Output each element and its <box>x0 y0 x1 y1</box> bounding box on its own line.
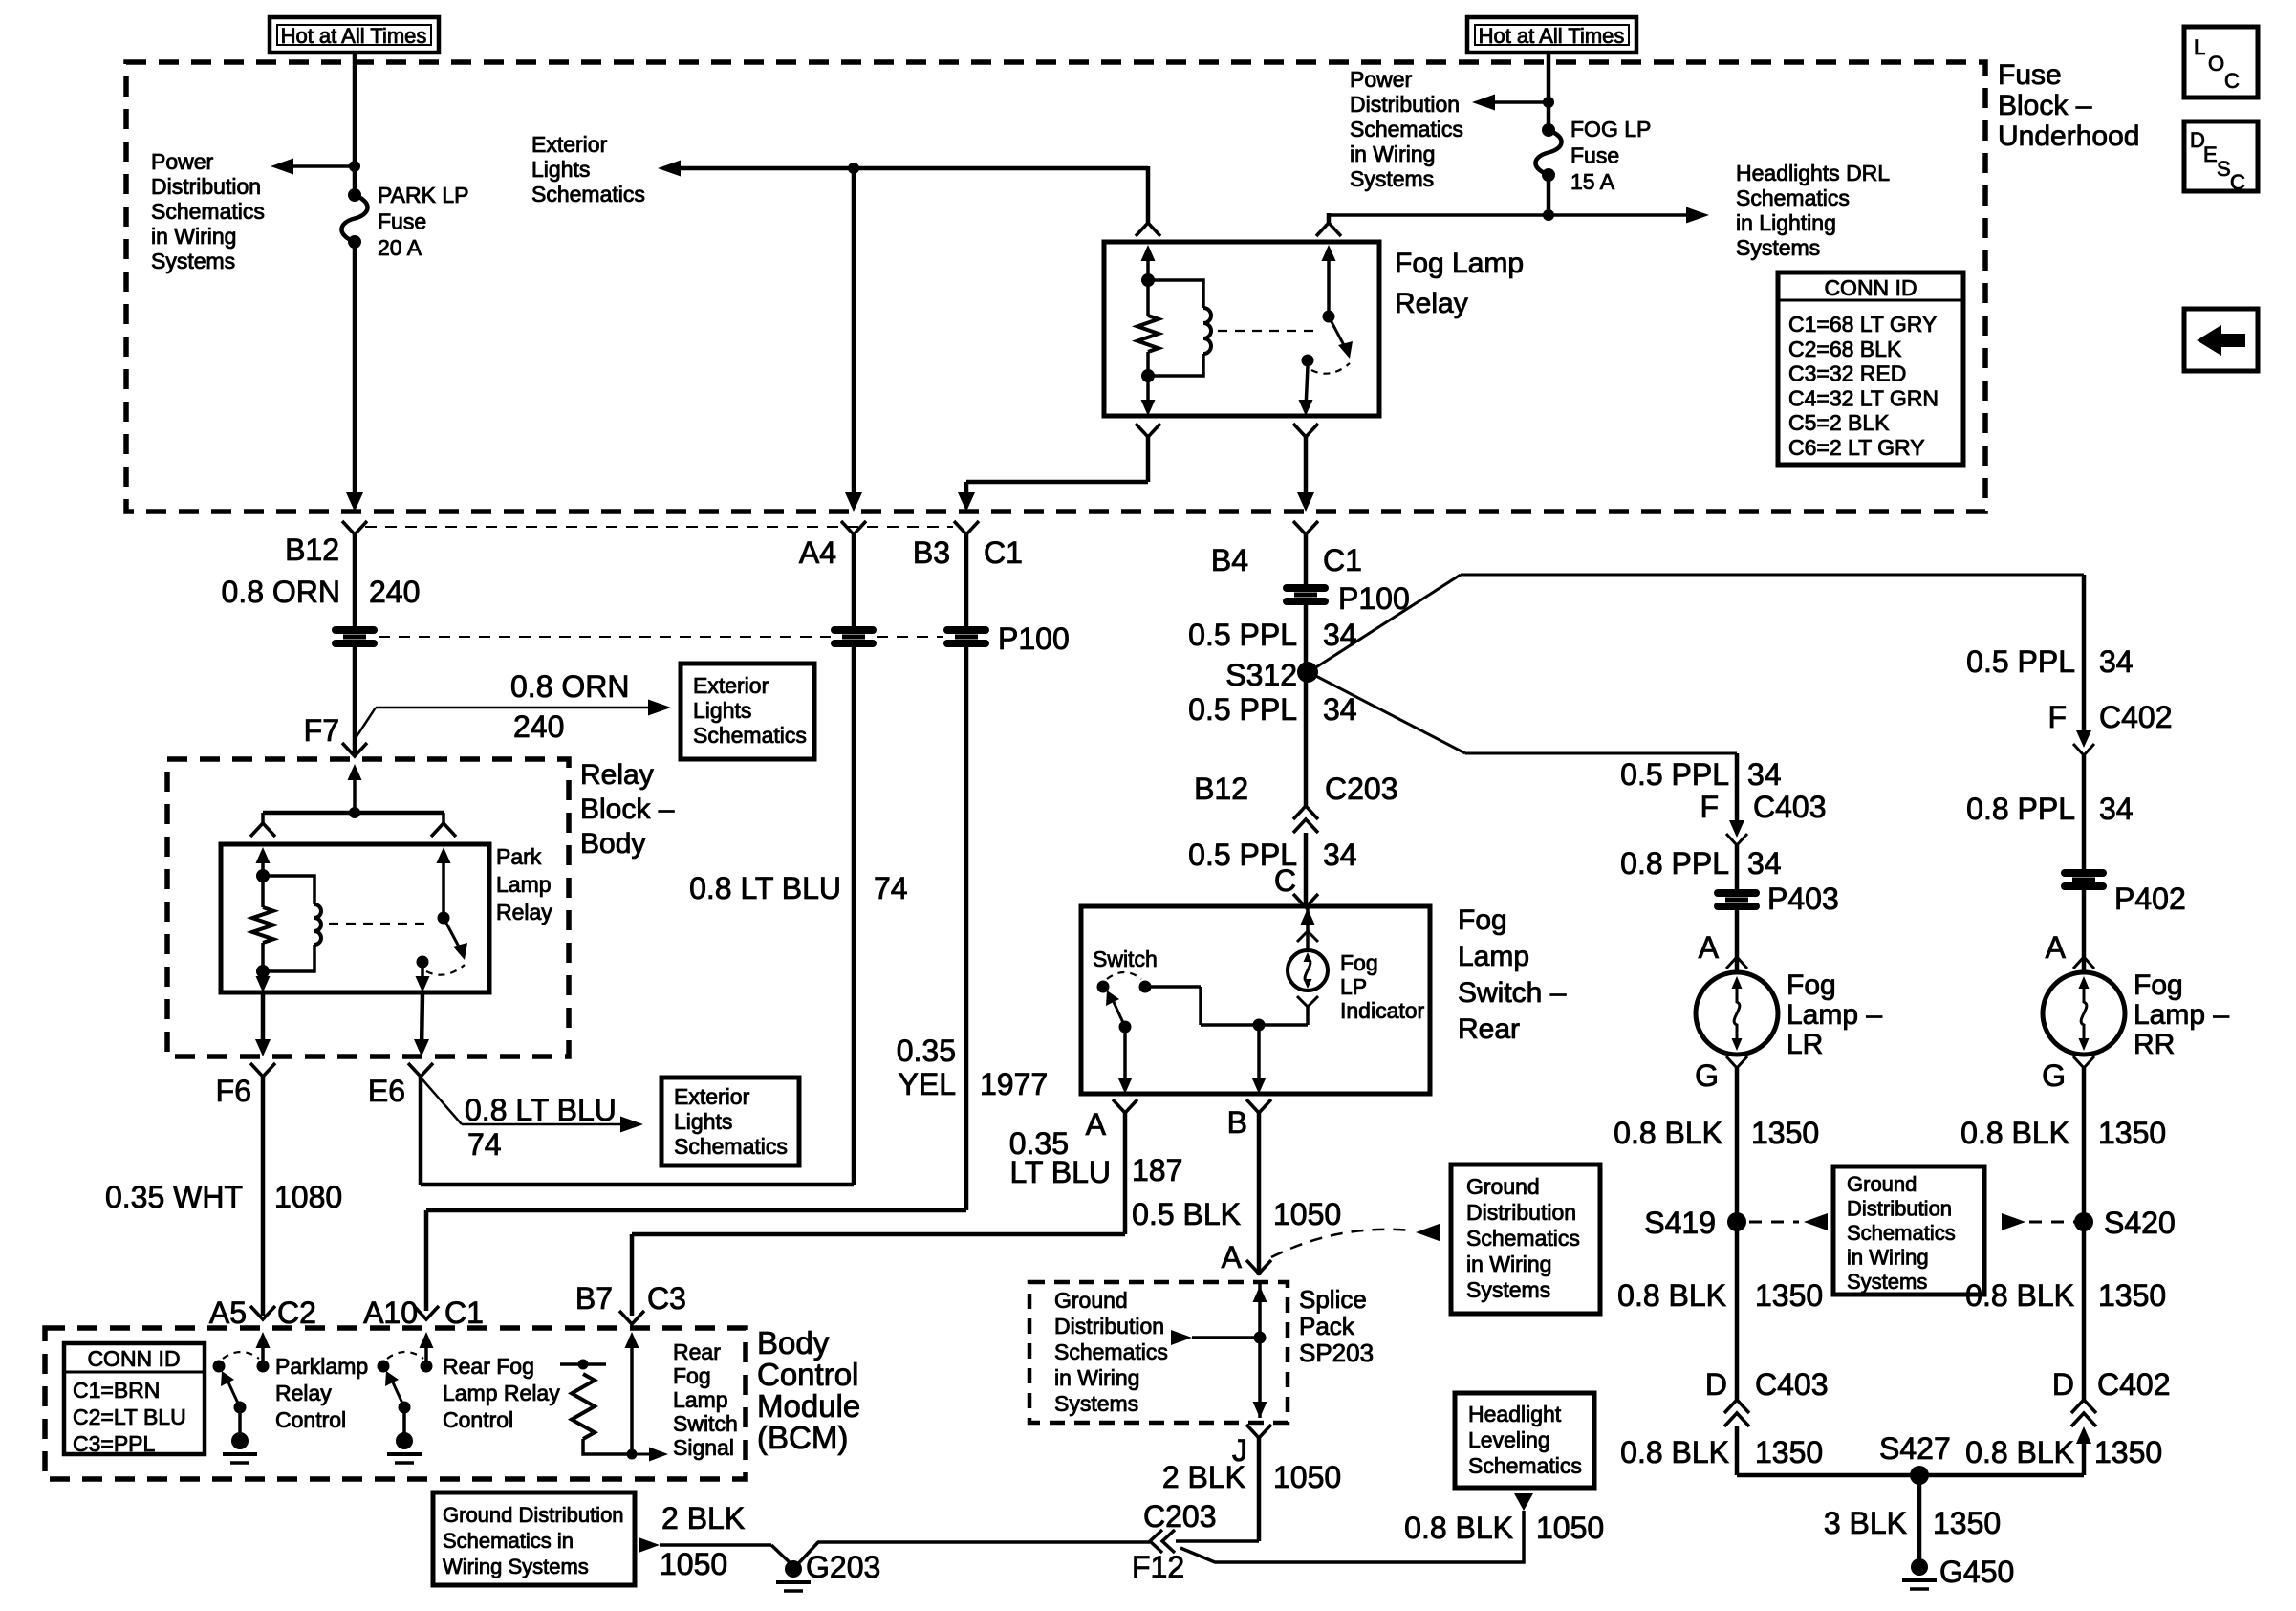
svg-text:F6: F6 <box>216 1074 251 1108</box>
pin A chevron <box>1113 1099 1137 1113</box>
wire C403-D to S427 rail <box>1735 1426 1740 1475</box>
svg-text:Hot at All Times: Hot at All Times <box>1479 24 1625 48</box>
relay block body dashed box <box>167 759 569 1056</box>
wire FOG fuse to rail <box>1547 175 1551 215</box>
svg-text:0.8 BLK: 0.8 BLK <box>1965 1278 2074 1313</box>
svg-text:C2: C2 <box>277 1295 316 1330</box>
svg-text:Module: Module <box>757 1388 860 1424</box>
fog relay left pin exit chevron <box>1136 424 1160 437</box>
C402 D double chevron <box>2071 1400 2096 1413</box>
svg-text:A: A <box>1086 1107 1107 1142</box>
wire A4 to P100 <box>852 534 856 626</box>
svg-text:0.35: 0.35 <box>897 1034 956 1068</box>
parklamp relay control pin arrow <box>261 1342 265 1366</box>
svg-text:C6=2 LT GRY: C6=2 LT GRY <box>1788 435 1925 460</box>
junction dot FOG fuse rail <box>1543 209 1554 221</box>
svg-text:Lamp –: Lamp – <box>1787 999 1882 1031</box>
Fog LP indicator circle <box>1288 950 1328 991</box>
svg-text:Ground Distribution: Ground Distribution <box>443 1503 624 1527</box>
svg-text:Ground: Ground <box>1054 1288 1128 1313</box>
connector C203 double chevron <box>1293 806 1318 819</box>
fog relay switch contact dot <box>1302 355 1314 367</box>
grommet P100 B3 <box>947 626 986 634</box>
fog relay output exit chevron <box>1293 424 1318 437</box>
park relay right pin stub <box>442 813 445 823</box>
splice pack SP203 dashed box <box>1029 1282 1288 1423</box>
wire F6 to A5 (0.35 WHT 1080) <box>261 1077 266 1316</box>
svg-text:Wiring Systems: Wiring Systems <box>443 1555 589 1578</box>
wire B3 to A10 horizontal <box>426 1208 966 1213</box>
wire P403 to lamp <box>1735 910 1740 972</box>
park relay switch arm <box>444 918 460 948</box>
pin B chevron <box>1246 1099 1271 1113</box>
svg-text:0.5 PPL: 0.5 PPL <box>1188 618 1297 652</box>
svg-text:Parklamp: Parklamp <box>275 1354 368 1379</box>
splice S419 <box>1727 1212 1746 1231</box>
splice in chevron <box>1246 1260 1271 1274</box>
park relay left pin stub <box>261 813 265 823</box>
svg-text:in Wiring: in Wiring <box>1847 1246 1929 1270</box>
fog relay switch dashed arc <box>1311 363 1350 374</box>
svg-text:B3: B3 <box>913 535 950 570</box>
S312 lower diagonal <box>1309 672 1465 753</box>
DESC button <box>2184 121 2258 191</box>
svg-text:A: A <box>2046 930 2067 965</box>
wire P100 to S312 <box>1304 605 1309 672</box>
svg-text:Fog: Fog <box>1458 904 1507 936</box>
wire P402 to lamp <box>2082 890 2087 972</box>
grommet P100 B12 <box>336 626 374 634</box>
wire B4 to P100 grommet <box>1304 534 1309 584</box>
svg-text:Rear: Rear <box>673 1339 721 1364</box>
switch pin C arrow <box>1306 906 1310 950</box>
headlight leveling schematics box <box>1455 1393 1594 1488</box>
splice pack wire <box>1258 1282 1262 1418</box>
svg-text:Lamp –: Lamp – <box>2134 999 2229 1031</box>
LOC button <box>2184 27 2258 98</box>
RR lamp chevron out <box>2073 1056 2094 1068</box>
svg-text:1050: 1050 <box>1536 1511 1604 1545</box>
svg-text:Lights: Lights <box>693 698 751 723</box>
fog lamp relay box <box>1104 242 1379 416</box>
park relay coil dots <box>256 869 270 882</box>
svg-text:C1=BRN: C1=BRN <box>73 1378 160 1403</box>
svg-text:C203: C203 <box>1143 1499 1217 1534</box>
rear fog relay control pin arrow <box>424 1342 428 1366</box>
svg-text:240: 240 <box>513 709 564 744</box>
fog lamp LR circle <box>1696 972 1778 1055</box>
wire LR lamp to S419 and C403-D <box>1735 1068 1740 1400</box>
splice pack junction dot <box>1254 1332 1267 1344</box>
wire E6 to A4 (0.8 LT BLU 74) <box>419 1077 423 1185</box>
park relay E6 wire <box>422 992 422 1049</box>
svg-text:0.8 LT BLU: 0.8 LT BLU <box>465 1093 617 1127</box>
svg-text:74: 74 <box>467 1127 502 1162</box>
fog lamp RR circle <box>2043 972 2125 1055</box>
svg-text:0.8 LT BLU: 0.8 LT BLU <box>689 871 841 905</box>
grommet P402 <box>2065 869 2103 877</box>
fog relay coil junction dots <box>1141 273 1155 287</box>
wire RR branch down <box>2082 575 2087 736</box>
svg-text:P100: P100 <box>1338 581 1410 616</box>
parklamp switch pivot dot <box>213 1361 226 1373</box>
svg-text:P402: P402 <box>2114 882 2186 916</box>
svg-text:Schematics: Schematics <box>1736 185 1850 210</box>
A5 chevron <box>250 1306 275 1319</box>
svg-text:Control: Control <box>757 1357 858 1392</box>
wire pin B down (0.5 BLK 1050) <box>1257 1113 1262 1275</box>
svg-text:O: O <box>2208 52 2224 76</box>
svg-text:C1=68 LT GRY: C1=68 LT GRY <box>1788 312 1937 337</box>
wire C203 to switch <box>1304 833 1309 907</box>
ground distribution box (lamps) <box>1833 1166 1984 1295</box>
svg-text:Distribution: Distribution <box>1350 92 1460 117</box>
svg-text:D: D <box>1705 1367 1727 1402</box>
svg-text:Exterior: Exterior <box>674 1084 750 1109</box>
svg-text:Fog: Fog <box>2134 969 2183 1001</box>
rear fog contact dot <box>399 1402 411 1414</box>
svg-text:Schematics: Schematics <box>531 182 645 207</box>
svg-text:S312: S312 <box>1225 658 1297 692</box>
wire corner down to fog relay switch pin <box>1327 213 1332 223</box>
upper rail to RR <box>1461 574 2084 577</box>
rear fog switch dashed arc <box>387 1352 423 1359</box>
relay block splitter rail <box>263 811 444 816</box>
ground distribution box (bottom) <box>433 1492 635 1585</box>
switch internal wiring <box>1145 985 1201 989</box>
svg-text:Body: Body <box>757 1325 830 1361</box>
parklamp switch ground <box>238 1407 242 1434</box>
parklamp switch throw dot <box>257 1361 270 1373</box>
svg-text:1050: 1050 <box>1273 1460 1341 1494</box>
switch pivot dot <box>1097 981 1110 993</box>
P100 dashed link left <box>379 636 831 638</box>
svg-text:Lamp Relay: Lamp Relay <box>443 1381 560 1405</box>
svg-text:34: 34 <box>2099 644 2134 679</box>
svg-text:G450: G450 <box>1939 1555 2014 1589</box>
ground rail S427 <box>1737 1473 2084 1478</box>
wire fog relay output to B4 <box>1304 435 1309 498</box>
svg-text:C1: C1 <box>984 535 1023 570</box>
S419 dashed annotation <box>1749 1221 1799 1224</box>
splice S420 <box>2074 1212 2093 1231</box>
svg-text:Rear: Rear <box>1458 1013 1520 1045</box>
svg-text:34: 34 <box>1323 838 1357 872</box>
fog relay coil low pin arrow <box>1146 376 1150 409</box>
svg-text:B12: B12 <box>285 533 339 567</box>
svg-text:Park: Park <box>496 844 542 869</box>
fog relay resistor <box>1146 280 1150 316</box>
svg-text:C402: C402 <box>2099 700 2173 734</box>
wire J down <box>1257 1438 1262 1541</box>
svg-text:Exterior: Exterior <box>531 132 608 157</box>
svg-text:Systems: Systems <box>1466 1277 1550 1302</box>
BCM resistor top bar <box>560 1362 606 1366</box>
ground distribution box (mid right) <box>1451 1165 1600 1314</box>
svg-text:Hot at All Times: Hot at All Times <box>281 24 427 48</box>
switch throw dot <box>1139 981 1152 993</box>
indicator chevron in <box>1297 931 1318 942</box>
fuse FOG LP 15A <box>1542 123 1555 137</box>
relay block splitter junction <box>349 807 360 818</box>
svg-text:C1: C1 <box>444 1295 484 1330</box>
svg-text:34: 34 <box>1323 692 1357 727</box>
connector C203 F12 chevrons <box>1150 1530 1162 1553</box>
fog relay output pin arrow <box>1306 366 1308 409</box>
arrow to Power Distribution Schematics (left) <box>292 164 355 168</box>
arrow from ground dist box <box>639 1537 660 1553</box>
svg-text:C: C <box>2224 69 2240 93</box>
fog relay left pin connector chevron <box>1136 223 1160 236</box>
wire LR branch down <box>1735 753 1740 826</box>
svg-text:Systems: Systems <box>1847 1270 1927 1294</box>
svg-text:Schematics: Schematics <box>1847 1221 1956 1245</box>
C402 chevron <box>2073 744 2094 755</box>
svg-text:Switch: Switch <box>673 1411 738 1436</box>
svg-text:C5=2 BLK: C5=2 BLK <box>1788 410 1890 435</box>
splice pack internal arrow <box>1171 1330 1192 1345</box>
svg-text:A: A <box>1699 930 1720 965</box>
svg-text:in Wiring: in Wiring <box>1054 1365 1139 1390</box>
wire J corner to C203 <box>1176 1539 1259 1543</box>
svg-text:1350: 1350 <box>2098 1278 2166 1313</box>
wire into G203 <box>771 1545 794 1567</box>
fog relay switch arm <box>1329 316 1345 347</box>
fog relay coil <box>1148 280 1203 308</box>
svg-text:Fuse: Fuse <box>1998 59 2062 91</box>
B7 chevron <box>619 1311 644 1324</box>
svg-text:C3: C3 <box>647 1281 686 1316</box>
splice S312 <box>1297 662 1318 683</box>
S312 upper diagonal <box>1309 575 1461 672</box>
A4 pin arrow <box>852 168 856 498</box>
rear fog switch throw dot <box>421 1361 433 1373</box>
svg-text:C402: C402 <box>2097 1367 2171 1402</box>
svg-text:CONN ID: CONN ID <box>1824 275 1917 300</box>
svg-text:PARK LP: PARK LP <box>378 183 468 207</box>
svg-text:1050: 1050 <box>1273 1197 1341 1231</box>
svg-text:1050: 1050 <box>660 1547 727 1581</box>
svg-text:C3=PPL: C3=PPL <box>73 1431 156 1456</box>
svg-text:240: 240 <box>369 575 420 609</box>
svg-text:1977: 1977 <box>980 1067 1048 1101</box>
svg-text:Ground: Ground <box>1466 1174 1540 1199</box>
svg-text:Distribution: Distribution <box>1054 1314 1164 1339</box>
Fuse Block - Underhood dashed box <box>126 62 1985 512</box>
BCM dashed box <box>45 1328 746 1479</box>
svg-text:Indicator: Indicator <box>1340 998 1425 1023</box>
svg-text:S419: S419 <box>1644 1206 1716 1240</box>
fog relay switch chevron <box>1316 223 1341 236</box>
svg-text:C1: C1 <box>1323 543 1362 577</box>
svg-text:Underhood: Underhood <box>1998 120 2139 152</box>
svg-text:1350: 1350 <box>1755 1435 1823 1469</box>
svg-text:Fog: Fog <box>1787 969 1836 1001</box>
svg-text:Systems: Systems <box>1736 235 1820 260</box>
switch pin C chevron <box>1293 894 1318 907</box>
svg-text:C403: C403 <box>1755 1367 1829 1402</box>
parklamp contact dot <box>234 1402 247 1414</box>
svg-text:Splice: Splice <box>1299 1285 1367 1314</box>
svg-text:Body: Body <box>580 828 645 860</box>
svg-text:0.8 PPL: 0.8 PPL <box>1966 792 2075 826</box>
svg-text:Lights: Lights <box>531 157 590 182</box>
svg-text:20 A: 20 A <box>378 235 422 260</box>
F7 annotation diagonal <box>356 708 376 738</box>
svg-text:L: L <box>2194 35 2205 59</box>
svg-text:3 BLK: 3 BLK <box>1824 1506 1907 1540</box>
park relay coil <box>263 876 314 904</box>
svg-text:Relay: Relay <box>275 1381 332 1405</box>
fog relay dashed link <box>1218 330 1315 332</box>
svg-text:CONN ID: CONN ID <box>87 1346 180 1371</box>
svg-text:S: S <box>2217 157 2231 181</box>
BCM resistor to signal <box>583 1439 632 1454</box>
svg-text:0.8 BLK: 0.8 BLK <box>1620 1435 1729 1469</box>
svg-text:F: F <box>1700 790 1719 824</box>
park relay left pin arrow <box>261 860 265 876</box>
rail to Headlights DRL arrow <box>1329 213 1688 217</box>
lower rail to LR <box>1465 752 1737 755</box>
wire F7 into relay block <box>353 780 357 813</box>
svg-text:in Wiring: in Wiring <box>151 224 236 249</box>
CONN ID table (BCM) <box>64 1343 205 1454</box>
headlight leveling box arrow <box>1514 1493 1533 1511</box>
F6 exit chevron <box>250 1063 275 1077</box>
wire corner down to fog relay pin (x1201) <box>1146 166 1151 223</box>
svg-text:Schematics: Schematics <box>674 1134 788 1159</box>
switch pin A arrow <box>1123 1027 1127 1078</box>
svg-text:0.8 BLK: 0.8 BLK <box>1960 1116 2069 1150</box>
A4 connector chevron <box>841 521 866 534</box>
svg-text:LR: LR <box>1787 1029 1823 1060</box>
svg-text:Fog: Fog <box>673 1363 711 1388</box>
svg-text:F7: F7 <box>304 713 339 748</box>
fog relay switch pivot <box>1323 311 1335 323</box>
wire A4 feed horizontal y176 <box>681 166 1148 171</box>
Hot at All Times box (left) <box>270 17 439 53</box>
wire C403 to P403 <box>1735 845 1740 889</box>
C403 chevron <box>1726 834 1747 845</box>
park relay coil low arrow <box>261 971 265 986</box>
switch dashed arc <box>1107 972 1141 979</box>
F7 connector chevron <box>342 743 367 756</box>
RR up arrow to C402 <box>2076 1426 2091 1444</box>
svg-text:Control: Control <box>275 1407 346 1432</box>
svg-text:RR: RR <box>2134 1029 2175 1060</box>
svg-text:F12: F12 <box>1132 1550 1184 1584</box>
svg-text:F: F <box>2047 700 2067 734</box>
wire C402 to P402 <box>2082 755 2087 869</box>
svg-text:in Wiring: in Wiring <box>1466 1252 1551 1276</box>
connector face dashed line C1 <box>365 526 953 528</box>
grommet P100 A4 <box>834 626 873 634</box>
svg-text:S420: S420 <box>2104 1206 2176 1240</box>
svg-text:Switch –: Switch – <box>1458 977 1567 1009</box>
svg-text:Leveling: Leveling <box>1468 1427 1550 1452</box>
dashed annotation to ground dist box <box>1271 1230 1411 1257</box>
svg-text:A5: A5 <box>209 1295 247 1330</box>
B3 connector chevron <box>954 521 979 534</box>
junction dot to power distribution arrow <box>349 161 360 172</box>
park relay dashed link <box>329 923 425 925</box>
exterior lights schematics box (mid) <box>681 664 814 759</box>
svg-text:FOG LP: FOG LP <box>1570 117 1651 142</box>
svg-text:Systems: Systems <box>151 249 235 273</box>
svg-text:Distribution: Distribution <box>1466 1200 1576 1225</box>
svg-text:Signal: Signal <box>673 1435 734 1460</box>
park relay switch pivot <box>438 912 450 925</box>
svg-text:Relay: Relay <box>496 900 552 925</box>
svg-text:D: D <box>2052 1367 2074 1402</box>
svg-text:Lamp: Lamp <box>673 1387 728 1412</box>
svg-text:0.5 PPL: 0.5 PPL <box>1966 644 2075 679</box>
svg-text:0.8 BLK: 0.8 BLK <box>1614 1116 1722 1150</box>
rear fog switch pivot dot <box>378 1361 390 1373</box>
svg-text:B12: B12 <box>1194 772 1248 806</box>
indicator chevron out <box>1297 996 1318 1007</box>
svg-text:Systems: Systems <box>1054 1391 1138 1416</box>
wire S427 to G450 <box>1917 1475 1922 1558</box>
LR lamp chevron in <box>1726 957 1747 969</box>
wire PARK LP fuse down to B12 <box>353 242 357 498</box>
svg-text:Fuse: Fuse <box>378 209 426 234</box>
svg-text:C2=LT BLU: C2=LT BLU <box>73 1404 186 1429</box>
svg-text:Schematics: Schematics <box>693 723 807 748</box>
wire B12 to P100 <box>353 534 357 626</box>
svg-text:2 BLK: 2 BLK <box>1162 1460 1245 1494</box>
wire from Hot box to PARK LP fuse <box>353 53 357 195</box>
svg-text:2 BLK: 2 BLK <box>661 1501 745 1535</box>
B12 connector chevron <box>342 521 367 534</box>
B4 connector chevron <box>1293 521 1318 534</box>
svg-text:1350: 1350 <box>2094 1435 2162 1469</box>
back arrow button <box>2184 309 2258 371</box>
switch arm contact dot <box>1119 1021 1132 1034</box>
svg-text:Schematics: Schematics <box>1350 117 1463 142</box>
wire B3 down (0.35 YEL 1977) <box>964 647 969 1210</box>
svg-text:Lights: Lights <box>674 1109 732 1134</box>
P100 dashed link right <box>877 636 943 638</box>
svg-text:C4=32 LT GRN: C4=32 LT GRN <box>1788 385 1939 410</box>
svg-text:Block –: Block – <box>580 794 675 825</box>
wire B3 to P100 <box>964 534 969 626</box>
svg-text:0.5 PPL: 0.5 PPL <box>1620 757 1729 792</box>
svg-text:15 A: 15 A <box>1570 169 1615 194</box>
E6 exit chevron <box>408 1063 433 1077</box>
svg-text:C2=68 BLK: C2=68 BLK <box>1788 337 1902 361</box>
wire headlight leveling to F12 <box>1180 1511 1524 1562</box>
svg-text:A10: A10 <box>363 1295 418 1330</box>
svg-text:C: C <box>1274 863 1296 898</box>
svg-text:187: 187 <box>1132 1153 1182 1187</box>
wire pin A to B7 (0.35 LT BLU 187) <box>1123 1113 1128 1234</box>
svg-text:G: G <box>1695 1058 1719 1093</box>
C402 F arrow <box>2076 730 2091 748</box>
parklamp switch dashed arc <box>223 1352 259 1359</box>
C403 D double chevron <box>1724 1400 1749 1413</box>
wire G203 to C203 <box>793 1542 1150 1569</box>
wire S312 down <box>1304 672 1309 806</box>
wire fog relay coil low to B3 <box>1146 435 1151 482</box>
svg-text:C3=32 RED: C3=32 RED <box>1788 361 1906 386</box>
svg-text:34: 34 <box>1747 846 1782 881</box>
svg-text:B4: B4 <box>1211 543 1248 577</box>
parklamp switch arm <box>228 1382 240 1407</box>
exterior lights schematics box (lower) <box>661 1078 799 1165</box>
park relay resistor <box>261 876 265 907</box>
fog lamp switch box <box>1081 906 1430 1094</box>
